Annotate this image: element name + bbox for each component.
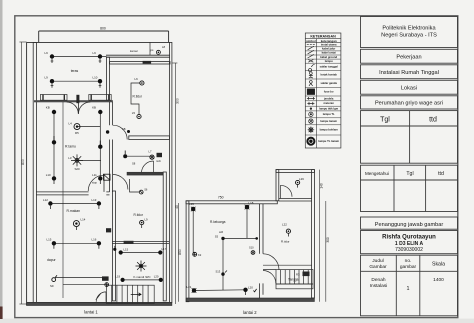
stairs landing band — [276, 284, 313, 289]
svg-text:L7: L7 — [149, 150, 152, 154]
lamp L19 lantai2 — [189, 202, 196, 211]
wire S13 lantai2 — [223, 238, 257, 290]
switch near wall H bath — [113, 246, 116, 251]
svg-text:L26: L26 — [299, 177, 304, 181]
lamp balcony L24 — [296, 177, 305, 188]
svg-text:K2: K2 — [198, 253, 202, 257]
svg-text:L5: L5 — [132, 111, 136, 115]
svg-text:lampu tanam: lampu tanam — [320, 119, 337, 123]
wall at rtamu east single — [62, 102, 64, 298]
left wall — [33, 42, 36, 302]
balcony top wall — [276, 170, 314, 173]
dimension line left lantai2 — [177, 203, 179, 302]
star lamp bath — [136, 261, 147, 272]
dimension line right 300 — [172, 63, 178, 304]
rtidur top wall window bar — [143, 61, 152, 64]
svg-text:L19: L19 — [189, 202, 194, 206]
stairs direction arrow — [131, 293, 141, 296]
title block box judul/no/skala — [361, 255, 458, 316]
svg-text:R.keluarga: R.keluarga — [210, 220, 226, 224]
wire rmakan row — [50, 203, 99, 205]
wire rkeluarga left vertical — [192, 209, 194, 254]
dimension line left 800 — [19, 42, 26, 304]
svg-text:300: 300 — [326, 237, 330, 243]
legend row texts — [318, 43, 339, 144]
svg-text:L6: L6 — [135, 77, 139, 81]
svg-text:lampu titik lgm: lampu titik lgm — [319, 107, 339, 111]
svg-text:mcb: mcb — [156, 159, 161, 163]
stairs lantai1 — [107, 285, 155, 303]
svg-text:L10: L10 — [93, 76, 98, 80]
wire star to right — [77, 159, 101, 161]
svg-text:L20: L20 — [248, 286, 253, 290]
svg-text:L17: L17 — [162, 247, 167, 251]
front wall dark line — [34, 100, 113, 102]
wire teras row2 — [52, 80, 100, 82]
svg-text:jendela: jendela — [323, 97, 334, 101]
svg-text:S5: S5 — [215, 234, 219, 238]
rtidur2 lamp — [140, 217, 148, 228]
svg-text:Perumahan griyo wage asri: Perumahan griyo wage asri — [375, 101, 443, 107]
outer boundary left line — [26, 42, 28, 305]
svg-text:lampu TL tanam: lampu TL tanam — [318, 139, 339, 143]
left scan edge strip — [0, 0, 3, 323]
lamp rtamu right top — [92, 106, 102, 115]
svg-text:300: 300 — [175, 98, 179, 104]
dimension line right outer — [325, 201, 327, 302]
wire rtidur vertical — [131, 83, 141, 114]
svg-text:KB: KB — [92, 106, 96, 110]
door leaf and arc wall D — [142, 161, 154, 172]
svg-text:dapur: dapur — [47, 258, 57, 262]
svg-text:R.tidur: R.tidur — [281, 239, 290, 243]
svg-text:lantai 2: lantai 2 — [243, 310, 257, 315]
svg-text:KB: KB — [46, 106, 50, 110]
svg-text:Tgl: Tgl — [380, 117, 390, 124]
svg-text:Penanggung jawab gambar: Penanggung jawab gambar — [375, 222, 444, 228]
lamp bath bottom left — [115, 275, 124, 282]
svg-text:kotak kontak: kotak kontak — [320, 73, 337, 77]
svg-text:S20: S20 — [75, 167, 81, 171]
title block box name — [361, 231, 458, 254]
svg-text:Denah: Denah — [371, 277, 385, 283]
svg-text:K.mandi /WC: K.mandi /WC — [134, 275, 151, 279]
svg-text:L9: L9 — [45, 51, 49, 55]
svg-text:1: 1 — [407, 286, 410, 292]
top wall lantai2 — [186, 201, 277, 204]
svg-text:kabel untai: kabel untai — [322, 51, 336, 55]
svg-text:no.: no. — [405, 259, 412, 264]
svg-text:Rishfa Qurotaayun: Rishfa Qurotaayun — [382, 235, 436, 241]
switch S5 lantai2 — [215, 234, 225, 240]
svg-text:L15: L15 — [47, 238, 52, 242]
svg-text:simbol: simbol — [306, 39, 316, 43]
lamp ring rmakan — [73, 217, 85, 230]
wire rtamu left vertical — [53, 111, 55, 178]
stairs lantai2 — [276, 270, 313, 284]
svg-text:saklar ganda: saklar ganda — [320, 81, 337, 85]
small top-right room divider — [149, 42, 151, 55]
svg-text:ttd: ttd — [438, 171, 444, 177]
wire bath bottom — [123, 279, 161, 281]
lamp bath left — [119, 248, 129, 255]
svg-text:L21: L21 — [187, 285, 192, 289]
front door centre post — [76, 95, 79, 103]
window frame right — [89, 95, 111, 101]
svg-text:800: 800 — [21, 159, 25, 165]
svg-text:R.tamu: R.tamu — [65, 144, 76, 148]
svg-text:S8: S8 — [132, 162, 136, 166]
svg-text:Gambar: Gambar — [369, 264, 387, 270]
switch dots on wall A — [106, 127, 130, 134]
outlet plus lantai2 — [193, 252, 202, 257]
svg-text:S13: S13 — [216, 270, 221, 274]
balcony left wall — [276, 170, 279, 201]
svg-text:L11: L11 — [92, 173, 97, 177]
svg-text:L19: L19 — [115, 275, 120, 279]
right wall lantai2 — [312, 170, 315, 298]
stop kontak box rtamu — [92, 174, 110, 184]
svg-text:S9: S9 — [50, 284, 54, 288]
svg-text:R5: R5 — [75, 131, 79, 135]
svg-text:meteran: meteran — [323, 101, 334, 105]
lamp teras 1 — [45, 51, 55, 63]
lamp dapur left — [47, 238, 57, 249]
svg-text:gambar: gambar — [400, 264, 417, 270]
lamp rtamu left bottom — [46, 173, 56, 184]
svg-text:Pekerjaan: Pekerjaan — [396, 55, 421, 61]
svg-text:L18: L18 — [249, 201, 254, 205]
interior wall B horizontal — [129, 136, 170, 140]
balcony bottom wall segments — [279, 199, 312, 202]
outer boundary top lines — [27, 31, 170, 42]
wire to rtidur2 switch — [130, 179, 139, 192]
dimension line right inner — [319, 170, 321, 302]
bottom wall — [27, 302, 172, 305]
svg-text:L9: L9 — [93, 51, 97, 55]
lamp bath bottom right — [154, 275, 163, 282]
svg-text:S10: S10 — [249, 245, 254, 249]
svg-text:Politeknik Elektronika: Politeknik Elektronika — [382, 26, 436, 32]
bottom scan strip — [0, 319, 474, 323]
rtidur2 switch x — [139, 188, 148, 194]
svg-text:Mengetahui: Mengetahui — [365, 171, 389, 176]
wire rtamu center to right — [77, 126, 100, 128]
lamp rtamu right bottom — [92, 173, 102, 184]
legend row separators — [305, 47, 341, 135]
interior wall C rtamu bottom — [36, 192, 109, 195]
lamp teras 2 — [93, 51, 103, 63]
svg-text:R3: R3 — [296, 273, 300, 277]
tick mark lantai2 — [253, 289, 256, 292]
title block box institution — [361, 17, 458, 48]
wire dapur row — [54, 242, 99, 244]
switch S13 lantai2 — [216, 270, 228, 276]
svg-text:L9: L9 — [45, 76, 49, 80]
door arc wall A upper — [113, 125, 127, 139]
svg-text:L10: L10 — [46, 173, 51, 177]
lamp rtidur bottom — [132, 111, 141, 119]
svg-text:R.tidur: R.tidur — [133, 95, 143, 99]
lamp rtamu left top — [46, 106, 56, 115]
switch middle room — [123, 151, 136, 166]
mcb box middle room — [156, 153, 162, 163]
svg-text:L16: L16 — [92, 238, 97, 242]
title block box penanggung jawab — [361, 217, 458, 229]
svg-text:S6: S6 — [144, 188, 148, 192]
front double door leafs — [67, 102, 91, 114]
lamp L4 ring center — [69, 121, 81, 134]
door leaf wall C — [103, 175, 105, 192]
lamp rtamu right mid — [98, 141, 102, 149]
title block box instalasi rumah tinggal — [361, 65, 458, 79]
svg-text:lampu bohlam: lampu bohlam — [320, 128, 339, 132]
svg-text:L14: L14 — [81, 217, 86, 221]
interior wall H vertical — [113, 191, 116, 301]
svg-text:Tgl: Tgl — [406, 171, 413, 177]
lamp L18 lantai2 — [245, 201, 254, 209]
lamp rtidur top L6 — [135, 77, 144, 85]
interior wall E vertical — [163, 172, 166, 301]
lamp L20 lantai2 — [243, 286, 253, 295]
svg-text:kamar: kamar — [130, 49, 138, 53]
lamp L22 right room — [282, 223, 291, 237]
wire dapur horizontal 1 — [56, 277, 102, 279]
svg-text:140: 140 — [320, 183, 324, 189]
svg-text:850: 850 — [178, 249, 182, 255]
title block box tgl/ttd — [361, 111, 458, 164]
wire bath row — [121, 252, 161, 254]
svg-text:Instalasi Rumah Tinggal: Instalasi Rumah Tinggal — [379, 70, 439, 76]
door arc wall I lower — [263, 271, 276, 284]
window frame left — [40, 95, 67, 101]
svg-text:instal utama: instal utama — [321, 43, 337, 47]
lamp teras 3 — [45, 76, 55, 88]
svg-text:ttd: ttd — [429, 117, 437, 124]
svg-text:L20: L20 — [154, 275, 159, 279]
svg-text:lampu: lampu — [325, 59, 333, 63]
title block box pekerjaan — [361, 49, 458, 63]
svg-text:stop: stop — [92, 181, 97, 185]
svg-text:R.tidur: R.tidur — [134, 213, 144, 217]
svg-text:KB: KB — [122, 127, 126, 131]
balcony door leaf and arc — [281, 185, 293, 198]
lamp bath right — [158, 247, 166, 255]
outlet R3 stairs — [296, 272, 310, 277]
svg-text:L22: L22 — [282, 223, 287, 227]
lamp ps top-right — [151, 45, 166, 55]
door arc bottom dapur — [96, 292, 106, 302]
svg-text:Tangga: Tangga — [288, 277, 299, 281]
interior wall F bathroom top — [112, 241, 169, 243]
door arc wall I upper — [263, 254, 279, 270]
junction symbols near wall I — [249, 237, 258, 254]
svg-text:lantai 1: lantai 1 — [84, 310, 98, 315]
switch dapur — [50, 275, 57, 288]
interior wall I vertical — [260, 204, 264, 298]
svg-text:lampu TL: lampu TL — [323, 112, 335, 116]
legend column divider — [315, 39, 317, 148]
wire rkeluarga right vertical — [246, 207, 248, 238]
bottom wall lantai2 — [186, 298, 314, 302]
svg-text:Instalasi: Instalasi — [370, 283, 388, 289]
lamp teras 4 — [93, 76, 103, 88]
lamp rmakan left — [43, 198, 53, 209]
wire teras row1 — [52, 56, 107, 58]
svg-text:L4: L4 — [69, 121, 73, 125]
legend row symbols — [307, 45, 315, 146]
strip room bottom wall — [106, 55, 170, 57]
lamp L21 lantai2 — [187, 285, 197, 293]
wire dapur horizontal 2 — [63, 283, 105, 285]
title block box mengetahui/tgl/ttd — [361, 165, 458, 211]
svg-text:teras: teras — [71, 69, 79, 73]
svg-text:Judul: Judul — [372, 258, 383, 264]
rtidur top wall — [110, 62, 171, 64]
dark red scan mark bottom-left — [0, 307, 3, 320]
middle room wire — [125, 155, 151, 157]
wire bottom lantai2 — [194, 289, 246, 292]
svg-text:wifi: wifi — [219, 230, 223, 234]
interior wall A vertical — [110, 102, 113, 192]
star lamp L3 — [71, 154, 83, 166]
svg-text:keterangan: keterangan — [321, 39, 337, 43]
stairs top wall lantai2 — [263, 265, 312, 269]
svg-text:L8: L8 — [162, 45, 166, 49]
step wall between fronts — [107, 57, 110, 100]
lamp X middle room — [149, 150, 155, 160]
legend outer box — [305, 33, 341, 148]
lamp rtamu left mid — [52, 136, 56, 145]
svg-text:1400: 1400 — [433, 277, 444, 283]
wire rtamu right vertical — [99, 111, 101, 178]
lamp rmakan right — [92, 198, 102, 209]
svg-text:800: 800 — [100, 27, 106, 31]
svg-text:Negeri Surabaya - ITS: Negeri Surabaya - ITS — [381, 33, 437, 39]
interior wall D — [127, 172, 163, 175]
title block box lokasi — [361, 80, 458, 94]
lamp dapur right — [92, 238, 102, 249]
outlet plus dapur — [105, 283, 109, 287]
svg-text:L13: L13 — [92, 198, 97, 202]
svg-text:kabel ground: kabel ground — [320, 55, 337, 59]
svg-text:L3: L3 — [68, 156, 72, 160]
door arc wall C — [88, 175, 104, 191]
outlet box dapur — [102, 276, 109, 280]
svg-text:R.makan: R.makan — [67, 209, 81, 213]
svg-text:7309030002: 7309030002 — [395, 247, 423, 253]
svg-text:kabel jalur: kabel jalur — [322, 47, 335, 51]
svg-text:L9: L9 — [145, 217, 149, 221]
svg-text:Lokasi: Lokasi — [401, 86, 417, 92]
svg-text:saklar tunggal: saklar tunggal — [320, 65, 338, 69]
svg-text:750: 750 — [218, 196, 224, 200]
title block box perumahan — [361, 96, 458, 109]
right wall — [169, 42, 172, 302]
svg-text:L15: L15 — [124, 248, 129, 252]
svg-text:L12: L12 — [43, 198, 48, 202]
svg-text:fuse bo: fuse bo — [324, 90, 334, 94]
left wall lantai2 — [186, 201, 189, 302]
panel box on wall H — [106, 228, 111, 232]
door arc wall A lower — [113, 175, 128, 190]
svg-text:Skala: Skala — [432, 262, 445, 268]
